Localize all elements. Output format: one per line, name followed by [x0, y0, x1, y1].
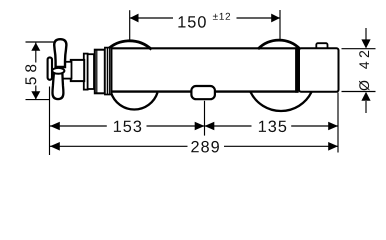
- dim 58 line upper segment: [35, 43, 37, 63]
- right end block: [299, 48, 339, 91]
- cross handle front arm tip capsule: [48, 57, 52, 79]
- dim 58 down arrowhead: [31, 91, 40, 99]
- dim 289 line left segment: [50, 145, 188, 147]
- dim 153 right arrowhead: [195, 122, 205, 131]
- dim dia42 line upper segment: [365, 28, 367, 40]
- dim 58 bottom tick: [26, 99, 51, 101]
- left wall escutcheon top arc: [108, 41, 152, 50]
- left wall escutcheon bottom arc: [111, 93, 158, 110]
- dim dia42 top tick: [342, 48, 376, 50]
- cartridge neck sleeve: [88, 54, 95, 89]
- handle bell base: [95, 50, 105, 94]
- dim label 58 rotated: [25, 65, 36, 85]
- dim dia42 line lower segment: [365, 101, 367, 113]
- dim 153 line right segment: [147, 125, 205, 127]
- dim tolerance label plus-minus 12: [213, 13, 230, 20]
- cartridge flange ring: [84, 54, 88, 90]
- top button tab on right block: [316, 43, 327, 52]
- dim dia42 up arrowhead: [361, 92, 370, 101]
- dim 289 line right segment: [224, 145, 338, 147]
- right wall escutcheon top arc: [258, 40, 300, 49]
- dim 150 line left segment: [130, 17, 173, 19]
- dim 135/289 right extension line: [337, 93, 339, 153]
- ring stack collar: [105, 48, 112, 95]
- dim 58 top tick: [26, 41, 55, 43]
- dim 135 right arrowhead: [328, 122, 338, 131]
- dim 289 left arrowhead: [50, 142, 60, 151]
- body right cap ring: [295, 47, 299, 92]
- valve body bottom edge: [112, 90, 299, 92]
- right wall escutcheon bottom arc: [251, 92, 312, 111]
- dim label 289: [191, 141, 219, 153]
- dim label dia 42 rotated: [359, 51, 369, 91]
- dim 135 left arrowhead: [205, 122, 215, 131]
- valve body top edge: [112, 47, 299, 49]
- valve body main cylinder fill: [112, 47, 299, 92]
- dim 153/135 middle extension line: [204, 101, 206, 136]
- ring stack line 2: [109, 48, 111, 95]
- dim 150 right extension line: [279, 10, 281, 40]
- dim label 153: [114, 121, 141, 133]
- dim 58 line lower segment: [35, 86, 37, 100]
- dim 150 line right segment: [237, 17, 281, 19]
- cross handle front arm ellipse: [52, 68, 64, 74]
- dim label 135: [259, 121, 286, 133]
- handle bell inner line: [96, 50, 98, 93]
- dim label 150: [178, 16, 205, 28]
- ring stack line 1: [107, 48, 109, 95]
- dim 289 right arrowhead: [328, 142, 338, 151]
- dim 153 line left segment: [50, 125, 107, 127]
- dim 153 left arrowhead: [50, 122, 60, 131]
- dim 150 left arrowhead: [130, 14, 139, 23]
- dim 135 line right segment: [291, 125, 338, 127]
- dim dia42 bottom tick: [342, 91, 376, 93]
- cross handle bottom blade: [53, 73, 64, 99]
- dim 150 left extension line: [129, 10, 131, 40]
- dim 150 right arrowhead: [271, 14, 280, 23]
- dim 58 up arrowhead: [31, 43, 40, 51]
- dim dia42 down arrowhead: [361, 39, 370, 48]
- dim 153/289 left extension line: [49, 87, 51, 156]
- handle hub: [63, 62, 72, 79]
- dim 135 line left segment: [205, 125, 252, 127]
- bottom outlet tab: [191, 86, 215, 99]
- handle stem: [71, 60, 84, 81]
- cross handle top blade: [54, 39, 66, 67]
